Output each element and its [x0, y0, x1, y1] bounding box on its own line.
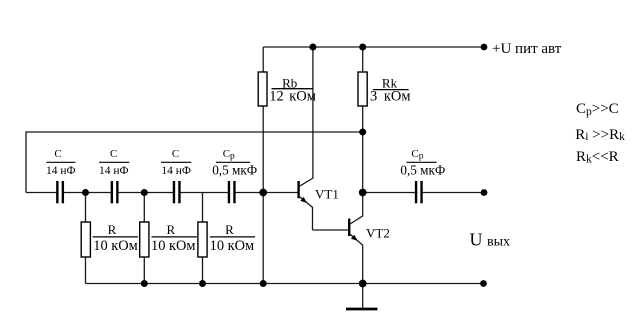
svg-text:0,5 мкФ: 0,5 мкФ — [212, 163, 257, 178]
terminal output — [481, 189, 488, 196]
svg-text:VT2: VT2 — [366, 226, 390, 241]
formula Cp>>C — [576, 101, 619, 118]
wire output line — [363, 192, 484, 194]
junction dot ladder node Rb — [259, 189, 267, 197]
junction dot bottom rail R3 — [199, 280, 206, 287]
resistor Rb — [258, 72, 316, 106]
svg-text:R: R — [108, 222, 117, 237]
capacitor C3 — [161, 148, 191, 204]
junction dot VT2 collector output node — [359, 189, 367, 197]
svg-text:C: C — [54, 148, 61, 160]
junction dot ladder node R2 — [141, 189, 148, 196]
terminal bottom common — [480, 280, 487, 287]
junction dot bottom rail VT2 emitter ground — [359, 280, 367, 288]
wire top supply rail — [263, 46, 484, 48]
wire VT2 emitter vertical — [362, 245, 364, 283]
wire R3 branch vertical — [202, 193, 204, 284]
node label +U пит авт — [492, 41, 562, 57]
transistor VT2 — [349, 216, 390, 246]
wire VT1 collector vertical — [312, 47, 314, 178]
wire Rb branch vertical — [262, 47, 264, 284]
capacitor Cp output — [400, 148, 445, 204]
transistor VT1 — [299, 178, 339, 208]
resistor R3 — [198, 222, 255, 257]
wire ground lead — [362, 284, 364, 309]
svg-text:14 нФ: 14 нФ — [99, 165, 129, 177]
wire Rk branch vertical — [362, 47, 364, 193]
svg-text:10 кОм: 10 кОм — [93, 238, 137, 254]
svg-text:Ri >>Rk: Ri >>Rk — [575, 127, 625, 143]
svg-text:14 нФ: 14 нФ — [46, 165, 76, 177]
svg-text:0,5 мкФ: 0,5 мкФ — [400, 163, 445, 178]
wire VT1 emitter to VT2 base — [313, 207, 349, 230]
resistor R2 — [140, 222, 197, 257]
junction dot top rail Rk — [359, 44, 366, 51]
wire R1 branch vertical — [85, 193, 87, 284]
svg-text:R: R — [225, 222, 234, 237]
svg-text:10 кОм: 10 кОм — [210, 238, 254, 254]
svg-text:Ср>>С: Ср>>С — [576, 101, 619, 118]
svg-text:3 кОм: 3 кОм — [370, 89, 411, 105]
wire VT2 collector vertical — [362, 193, 364, 216]
ground — [346, 308, 378, 311]
svg-text:14 нФ: 14 нФ — [161, 165, 191, 177]
resistor Rk — [358, 72, 411, 106]
wire feedback line from Rk node to ladder input — [26, 131, 363, 133]
wire bottom rail — [86, 283, 484, 285]
wire RC ladder horizontal — [26, 192, 298, 194]
svg-text:Rk<<R: Rk<<R — [576, 149, 619, 166]
junction dot feedback at Rk branch — [359, 129, 366, 136]
formula Rk<<R — [576, 149, 619, 166]
svg-text:10 кОм: 10 кОм — [151, 238, 195, 254]
terminal +U supply — [481, 44, 488, 51]
junction dot bottom rail R2 — [141, 280, 148, 287]
svg-text:C: C — [172, 148, 179, 160]
wire R2 branch vertical — [143, 193, 145, 284]
svg-text:R: R — [166, 222, 175, 237]
junction dot top rail VT1 collector — [309, 44, 316, 51]
svg-text:C: C — [110, 148, 117, 160]
junction dot bottom rail Rb branch — [260, 280, 267, 287]
svg-text:+U пит авт: +U пит авт — [492, 41, 562, 57]
node label U вых — [470, 230, 511, 250]
junction dot ladder node R1 — [82, 189, 89, 196]
capacitor C2 — [99, 148, 129, 204]
resistor R1 — [81, 222, 138, 257]
svg-text:VT1: VT1 — [315, 186, 339, 201]
wire ladder input left vertical — [25, 131, 27, 192]
capacitor C1 — [46, 148, 76, 204]
formula Ri>>Rk — [575, 127, 625, 143]
svg-text:12 кОм: 12 кОм — [269, 89, 316, 105]
capacitor Cp coupling in ladder — [212, 148, 257, 204]
